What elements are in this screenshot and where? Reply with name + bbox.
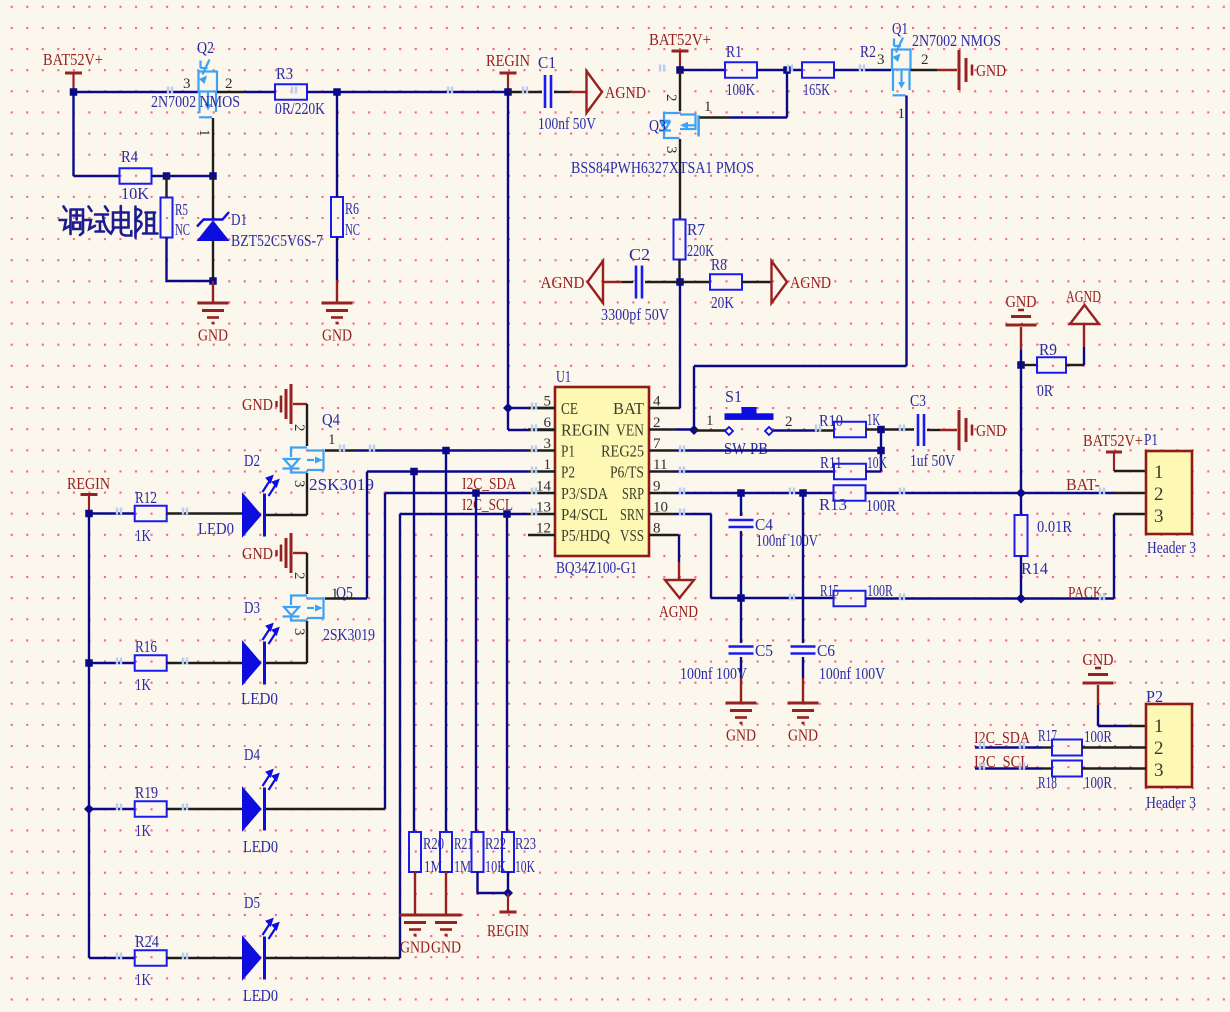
svg-text:D4: D4 — [244, 745, 260, 764]
diode D2 LED0 — [243, 494, 262, 537]
svg-text:GND: GND — [976, 61, 1006, 80]
svg-text:3: 3 — [183, 76, 191, 92]
svg-text:R14: R14 — [1021, 559, 1048, 578]
pin stub right 10 — [649, 513, 676, 515]
ground AGND left of C2 — [588, 261, 604, 303]
wire — [680, 69, 725, 71]
svg-text:R24: R24 — [135, 932, 159, 951]
pin stub left 1 — [528, 470, 555, 472]
ground GND under C5 — [726, 702, 757, 705]
svg-text:R17: R17 — [1038, 726, 1057, 745]
wire — [1097, 685, 1099, 705]
node R1 R2 — [783, 66, 791, 74]
wire VSS to AGND — [676, 534, 679, 536]
op-amp U1 BQ34Z100-G1 — [555, 387, 649, 556]
wire to P1 pin2 — [1114, 492, 1146, 494]
power port REGIN top — [500, 72, 517, 75]
wire — [167, 662, 244, 664]
wire — [167, 808, 244, 810]
capacitor C2 3300pf 50V — [635, 266, 638, 299]
svg-text:GND: GND — [431, 938, 461, 957]
svg-text:VSS: VSS — [620, 526, 644, 545]
wire — [266, 514, 307, 516]
svg-text:R8: R8 — [711, 255, 727, 274]
wire SDA row — [385, 492, 528, 494]
resistor R9 0R — [1021, 364, 1037, 366]
ground AGND right of R8 — [772, 261, 788, 303]
capacitor C4 100nf 100V — [740, 493, 742, 516]
svg-text:10K: 10K — [867, 453, 887, 472]
svg-text:GND: GND — [400, 938, 430, 957]
svg-text:R18: R18 — [1038, 773, 1057, 792]
svg-text:GND: GND — [242, 544, 273, 563]
wire I2C_SDA — [975, 746, 1042, 748]
wire — [694, 365, 907, 367]
transistor Q1 — [892, 38, 911, 96]
wire P2 row — [367, 470, 528, 472]
svg-text:100nf 50V: 100nf 50V — [538, 114, 597, 133]
diode D3 LED0 — [243, 642, 262, 685]
node BAT52V+ junction — [70, 88, 78, 96]
resistor R21 1M — [440, 832, 452, 872]
ground GND under R20 — [400, 914, 431, 917]
svg-text:P5/HDQ: P5/HDQ — [561, 526, 610, 545]
node VEN junction — [689, 425, 699, 435]
node — [503, 510, 511, 518]
wire — [293, 552, 307, 554]
pin stub right 11 — [649, 470, 676, 472]
pin stub left 13 — [528, 513, 555, 515]
svg-text:C1: C1 — [538, 53, 556, 72]
power port REGIN left — [81, 493, 98, 496]
svg-text:R4: R4 — [121, 147, 138, 166]
svg-text:R12: R12 — [135, 488, 157, 507]
node — [163, 172, 171, 180]
svg-text:GND: GND — [1083, 650, 1114, 669]
ground GND right of Q1 — [958, 50, 961, 90]
svg-text:R16: R16 — [135, 637, 157, 656]
wire — [245, 91, 275, 93]
node — [85, 510, 93, 518]
resistor R2 — [802, 62, 834, 78]
wire R21 to ground — [445, 872, 447, 914]
svg-text:R19: R19 — [135, 783, 158, 802]
switch S1 SW-PB — [742, 408, 756, 415]
svg-text:REGIN: REGIN — [67, 474, 110, 493]
node CE junction — [503, 403, 513, 413]
wire vertical to R22 — [475, 493, 477, 832]
wire — [167, 957, 244, 959]
wire R5 bottom — [167, 238, 214, 282]
wire Q3 gate — [700, 116, 731, 118]
svg-text:2: 2 — [785, 414, 793, 430]
node — [442, 447, 450, 455]
svg-text:P2: P2 — [1146, 687, 1163, 706]
svg-text:100R: 100R — [867, 581, 893, 600]
wire — [89, 808, 135, 810]
svg-text:GND: GND — [976, 421, 1006, 440]
wire R6 bottom — [336, 237, 338, 280]
ground AGND above R9 — [1070, 305, 1099, 324]
svg-text:2: 2 — [663, 94, 679, 102]
wire R5 top — [165, 176, 167, 198]
svg-text:2N7002 NMOS: 2N7002 NMOS — [151, 92, 240, 111]
svg-text:VEN: VEN — [616, 421, 644, 440]
resistor R23 10K — [502, 832, 514, 872]
svg-text:BAT52V+: BAT52V+ — [43, 50, 103, 69]
capacitor C6 100nf 100V — [802, 493, 804, 643]
svg-text:SW-PB: SW-PB — [724, 439, 768, 458]
wire to AGND — [570, 91, 586, 93]
pin stub left 12 — [528, 534, 555, 536]
svg-text:GND: GND — [198, 326, 228, 345]
wire BAT pin rail — [679, 282, 681, 408]
diode D5 LED0 — [243, 937, 262, 980]
svg-text:Q4: Q4 — [322, 410, 340, 429]
wire — [603, 281, 622, 283]
svg-text:2SK3019: 2SK3019 — [323, 625, 375, 644]
svg-text:AGND: AGND — [605, 83, 646, 102]
svg-text:0R/220K: 0R/220K — [275, 99, 326, 118]
svg-text:D3: D3 — [244, 598, 260, 617]
wire — [866, 470, 881, 472]
wire Q4 drain — [325, 449, 356, 451]
svg-text:R21: R21 — [454, 834, 473, 853]
svg-text:10K: 10K — [121, 184, 150, 203]
wire vertical to R20 — [413, 472, 415, 833]
svg-text:1K: 1K — [135, 970, 152, 989]
pin stub left 5 — [528, 407, 555, 409]
svg-text:BAT52V+: BAT52V+ — [1083, 431, 1143, 450]
svg-text:R2: R2 — [860, 42, 876, 61]
svg-text:1K: 1K — [135, 526, 152, 545]
svg-text:10K: 10K — [515, 857, 535, 876]
svg-text:1: 1 — [704, 99, 712, 115]
capacitor C1 100nf 50V — [508, 91, 542, 93]
wire REGIN rail — [507, 92, 509, 430]
resistor R15 100R — [834, 591, 866, 607]
ground GND under C6 — [788, 702, 819, 705]
node — [1016, 594, 1026, 604]
svg-text:3300pf 50V: 3300pf 50V — [601, 305, 670, 324]
node — [737, 489, 745, 497]
ground AGND under VSS — [665, 580, 694, 598]
svg-text:2: 2 — [1154, 738, 1164, 759]
resistor R1 — [725, 62, 757, 78]
node — [799, 489, 807, 497]
resistor R18 100R — [1052, 761, 1082, 777]
svg-text:1: 1 — [1154, 462, 1164, 483]
svg-text:R6: R6 — [345, 199, 359, 218]
wire — [266, 957, 400, 959]
svg-text:BQ34Z100-G1: BQ34Z100-G1 — [556, 558, 637, 577]
svg-text:100nf 100V: 100nf 100V — [680, 664, 748, 683]
diode D1 zener BZT52C5V6S-7 — [212, 176, 214, 219]
svg-text:LED0: LED0 — [243, 986, 278, 1005]
svg-text:Header 3: Header 3 — [1146, 793, 1196, 812]
svg-text:1: 1 — [196, 129, 212, 137]
svg-text:NC: NC — [175, 220, 190, 239]
svg-text:2SK3019: 2SK3019 — [309, 475, 374, 494]
node R6 tap — [333, 88, 341, 96]
pin stub left 14 — [528, 492, 555, 494]
node REGIN junction — [504, 88, 512, 96]
node — [85, 659, 93, 667]
wire vertical SDA to D4 — [384, 493, 386, 809]
transistor Q3 PMOS — [659, 113, 699, 138]
wire CE — [508, 407, 528, 409]
resistor R6 — [331, 197, 343, 237]
wire R6 top — [336, 92, 338, 197]
svg-text:2: 2 — [225, 76, 233, 92]
svg-text:1K: 1K — [135, 821, 152, 840]
wire R22 R23 to REGIN — [478, 872, 509, 893]
svg-text:P1: P1 — [1144, 430, 1158, 449]
svg-text:2: 2 — [1154, 484, 1164, 505]
wire P6/TS — [676, 470, 834, 472]
node — [209, 277, 217, 285]
ground AGND right of C1 — [587, 71, 603, 113]
svg-text:REG25: REG25 — [601, 442, 644, 461]
wire to ground — [212, 281, 214, 303]
svg-text:I2C_SDA: I2C_SDA — [974, 728, 1031, 747]
svg-text:P2: P2 — [561, 463, 575, 482]
wire — [866, 428, 914, 430]
resistor R10 1K — [834, 422, 866, 438]
svg-text:1uf 50V: 1uf 50V — [910, 451, 956, 470]
svg-text:CE: CE — [561, 399, 578, 418]
wire — [741, 597, 834, 599]
svg-text:3: 3 — [877, 52, 885, 68]
svg-text:AGND: AGND — [790, 273, 831, 292]
svg-text:C2: C2 — [629, 245, 650, 264]
svg-text:BAT52V+: BAT52V+ — [649, 30, 711, 49]
svg-text:R23: R23 — [515, 834, 536, 853]
connector P1 Header 3 — [1146, 451, 1192, 534]
wire — [645, 281, 680, 283]
node REG25 junction — [877, 447, 885, 455]
resistor R22 10K — [472, 832, 484, 872]
wire Q2 source — [212, 118, 214, 176]
svg-text:P1: P1 — [561, 442, 575, 461]
svg-text:2: 2 — [921, 52, 929, 68]
resistor R12 1K — [135, 506, 167, 522]
transistor Q2 — [199, 60, 218, 118]
svg-text:1: 1 — [328, 432, 336, 448]
svg-text:1M: 1M — [454, 857, 471, 876]
svg-text:3: 3 — [663, 146, 679, 154]
svg-text:REGIN: REGIN — [487, 921, 529, 940]
svg-text:R5: R5 — [175, 200, 188, 219]
wire SCL row — [400, 513, 528, 515]
wire — [742, 281, 771, 283]
wire Q4 source — [306, 473, 308, 515]
wire Q5 drain — [325, 597, 356, 599]
connector P2 Header 3 — [1146, 704, 1192, 787]
svg-text:3: 3 — [291, 628, 307, 636]
svg-text:2: 2 — [291, 424, 307, 432]
capacitor C5 100nf 100V — [740, 598, 742, 643]
wire — [866, 492, 1115, 494]
svg-text:D1: D1 — [231, 210, 247, 229]
wire PACK- — [866, 597, 1115, 599]
wire REGIN pin — [508, 429, 528, 431]
svg-text:LED0: LED0 — [241, 689, 278, 708]
wire Q1 source — [905, 96, 907, 367]
pin stub right 2 — [649, 428, 676, 430]
wire — [680, 281, 711, 283]
wire Q3 drain — [679, 139, 681, 219]
svg-text:1: 1 — [898, 106, 906, 122]
wire — [1066, 364, 1084, 366]
resistor R7 220K — [674, 220, 686, 260]
wire I2C_SCL — [975, 767, 1042, 769]
svg-text:0.01R: 0.01R — [1037, 517, 1073, 536]
pin stub right 9 — [649, 492, 676, 494]
resistor R17 100R — [1052, 740, 1082, 756]
svg-text:3: 3 — [1154, 506, 1164, 527]
svg-text:AGND: AGND — [1066, 287, 1101, 306]
wire — [1020, 365, 1022, 493]
svg-text:GND: GND — [1006, 292, 1037, 311]
svg-text:Q1: Q1 — [892, 19, 908, 38]
svg-text:I2C_SDA: I2C_SDA — [462, 474, 517, 493]
svg-text:R3: R3 — [276, 64, 293, 83]
svg-text:3: 3 — [291, 480, 307, 488]
svg-text:P4/SCL: P4/SCL — [561, 505, 608, 524]
resistor R3 — [275, 84, 307, 100]
svg-text:100nf 100V: 100nf 100V — [819, 664, 886, 683]
wire vertical to R21 — [445, 451, 447, 833]
svg-text:2N7002 NMOS: 2N7002 NMOS — [912, 31, 1001, 50]
svg-text:GND: GND — [242, 395, 273, 414]
svg-text:NC: NC — [345, 220, 360, 239]
svg-text:U1: U1 — [556, 367, 571, 386]
wire BAT pin — [676, 407, 680, 409]
svg-text:R10: R10 — [819, 411, 843, 430]
svg-text:AGND: AGND — [541, 273, 585, 292]
node — [84, 804, 94, 814]
ground GND under R6 — [322, 302, 353, 305]
wire — [693, 366, 695, 430]
resistor R20 1M — [409, 832, 421, 872]
wire — [834, 69, 891, 71]
svg-text:1: 1 — [706, 413, 714, 429]
svg-text:100nf 100V: 100nf 100V — [756, 531, 819, 550]
wire — [757, 69, 803, 71]
wire Q2 drain — [217, 91, 245, 93]
node C2 junction — [676, 278, 684, 286]
wire — [168, 87, 172, 94]
svg-text:PACK-: PACK- — [1068, 583, 1107, 602]
wire vertical to R23 — [506, 514, 508, 832]
transistor Q4 2SK3019 — [283, 448, 324, 473]
svg-text:REGIN: REGIN — [561, 421, 610, 440]
wire — [880, 430, 882, 472]
svg-text:LED0: LED0 — [243, 837, 278, 856]
resistor R14 0.01R — [1020, 493, 1022, 515]
node — [503, 888, 513, 898]
svg-text:R11: R11 — [820, 453, 842, 472]
wire — [89, 662, 135, 664]
resistor R11 10K — [834, 464, 866, 480]
svg-text:REGIN: REGIN — [486, 51, 530, 70]
node — [209, 172, 217, 180]
svg-text:GND: GND — [726, 726, 756, 745]
svg-text:100K: 100K — [726, 80, 756, 99]
ground GND under D1 — [198, 302, 229, 305]
wire REG25 — [676, 449, 881, 451]
wire — [152, 175, 214, 177]
svg-text:R7: R7 — [687, 220, 705, 239]
wire to P1 pin 1 — [1114, 470, 1146, 472]
ground GND at Q5 — [290, 533, 293, 573]
node PACK junction — [737, 594, 745, 602]
pin stub right 4 — [649, 407, 676, 409]
svg-text:GND: GND — [788, 726, 818, 745]
wire — [266, 808, 385, 810]
capacitor C3 1uf 50V — [917, 414, 920, 446]
pin stub left 3 — [528, 449, 555, 451]
pin stub right 7 — [649, 449, 676, 451]
wire S1 to R10 — [774, 429, 816, 431]
wire vertical SCL to D5 — [399, 514, 401, 958]
wire — [1020, 327, 1022, 350]
svg-text:C5: C5 — [755, 641, 773, 660]
svg-text:3: 3 — [1154, 760, 1164, 781]
resistor R8 20K — [710, 274, 742, 290]
svg-text:P3/SDA: P3/SDA — [561, 484, 609, 503]
wire — [293, 403, 307, 405]
svg-text:20K: 20K — [711, 293, 735, 312]
wire R20 to ground — [414, 872, 416, 914]
wire SRN — [676, 513, 711, 515]
wire REGIN rail left — [88, 514, 90, 959]
pin stub left 6 — [528, 428, 555, 430]
svg-text:R15: R15 — [820, 581, 839, 600]
svg-text:P6/TS: P6/TS — [610, 463, 644, 482]
wire Q1 drain to ground — [911, 69, 938, 71]
node — [410, 468, 418, 476]
transistor Q5 2SK3019 — [283, 596, 324, 621]
resistor R16 1K — [135, 655, 167, 671]
svg-text:C3: C3 — [910, 391, 926, 410]
resistor R24 1K — [135, 950, 167, 966]
ground GND at Q4 — [290, 384, 293, 424]
wire — [167, 512, 244, 514]
svg-text:SRP: SRP — [622, 484, 644, 503]
wire Q5 source — [306, 621, 308, 663]
svg-text:100R: 100R — [1084, 773, 1112, 792]
wire — [678, 260, 680, 283]
power port REGIN bottom — [500, 911, 517, 914]
resistor R4 — [120, 168, 152, 184]
resistor R5 — [161, 198, 173, 238]
svg-text:S1: S1 — [725, 387, 742, 406]
svg-text:GND: GND — [322, 326, 352, 345]
svg-text:LED0: LED0 — [198, 519, 234, 538]
wire — [927, 429, 940, 431]
wire — [89, 957, 135, 959]
svg-text:D5: D5 — [244, 893, 260, 912]
svg-text:Header 3: Header 3 — [1147, 538, 1196, 557]
svg-text:2: 2 — [291, 572, 307, 580]
wire VEN to S1 — [694, 429, 726, 431]
svg-text:100R: 100R — [866, 496, 897, 515]
svg-text:R13: R13 — [819, 495, 847, 514]
svg-text:10K: 10K — [485, 857, 507, 876]
wire — [1082, 767, 1146, 769]
